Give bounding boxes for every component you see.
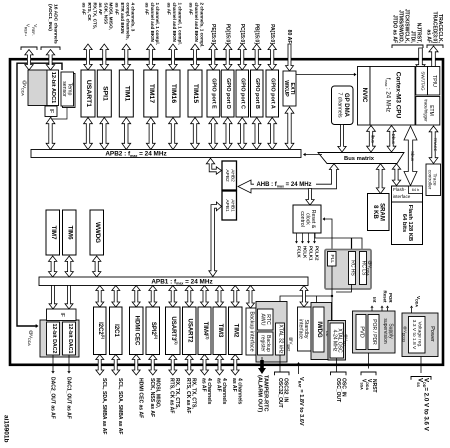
pin NRST VDDA VSSA: [360, 353, 377, 393]
svg-text:3.3 V to 1.8 V: 3.3 V to 1.8 V: [411, 320, 417, 350]
block TIM15: [188, 70, 202, 117]
wire APB1 to SPI2: [149, 286, 157, 308]
wire VDDA analog supply: [17, 63, 62, 328]
wire AHB to RCC: [306, 189, 314, 206]
svg-text:channel and BKIN: channel and BKIN: [150, 3, 155, 43]
pin VDDA top: [410, 296, 421, 313]
svg-text:(ALARM OUT): (ALARM OUT): [257, 375, 263, 412]
pin label at x=173: [167, 3, 183, 71]
wire ADC IF to temp sensor: [51, 108, 67, 120]
pin PC[15:0]: [238, 24, 246, 70]
svg-text:USART2: USART2: [187, 318, 193, 343]
pin DAC2_OUT: [49, 355, 55, 419]
svg-text:XTAL 32 kHz: XTAL 32 kHz: [278, 325, 284, 354]
block PVD: [356, 315, 366, 350]
block Supply supervision @VDDA: [353, 311, 396, 353]
svg-text:PA[15:0]: PA[15:0]: [269, 24, 275, 44]
block SPI1: [97, 70, 111, 117]
block DAC @VDDA group: [27, 320, 79, 357]
svg-text:Flash-: Flash-: [393, 187, 406, 192]
wire Ibus CPU to bus matrix: [367, 126, 376, 153]
block Power @VDD group: [401, 313, 438, 357]
block GPIO port D: [222, 70, 235, 117]
block AHB1:APB1 bridge: [222, 191, 237, 220]
wire APB1 to DAC IF: [49, 286, 73, 310]
block RTC AWU: [258, 309, 274, 330]
svg-text:GPIO port E: GPIO port E: [211, 78, 217, 109]
block TIM17: [144, 70, 158, 117]
block HDMI CEC: [130, 307, 144, 355]
block TIM7: [46, 210, 60, 255]
pin label at x=150.8: [144, 3, 160, 71]
wire POR Reset output: [381, 291, 393, 311]
bus APB2: [31, 150, 301, 158]
svg-text:TIM6: TIM6: [66, 225, 73, 240]
svg-text:as AF: as AF: [189, 3, 194, 16]
svg-text:DAC1_OUT as AF: DAC1_OUT as AF: [65, 377, 71, 419]
pin PD[15:0]: [224, 24, 232, 70]
wire Int interrupt output: [371, 297, 377, 311]
svg-text:TIM7: TIM7: [50, 225, 57, 240]
block TIM3: [213, 307, 226, 355]
block USART1: [81, 70, 95, 117]
block IWDG @VDD group: [311, 303, 332, 360]
gpio gap shading: [220, 71, 222, 117]
svg-text:TIM3: TIM3: [217, 324, 223, 338]
svg-text:RTS, CK as AF: RTS, CK as AF: [168, 378, 174, 413]
pin VBAT: [297, 362, 304, 426]
block TIM6: [63, 210, 77, 255]
svg-text:USART1: USART1: [85, 80, 92, 107]
svg-text:SCK, NSS as AF: SCK, NSS as AF: [149, 378, 155, 417]
wire ETM to trace controller: [429, 126, 438, 164]
block Backup registers: [258, 332, 274, 355]
svg-text:control: control: [299, 211, 305, 227]
svg-text:IF: IF: [48, 109, 54, 113]
bus AHB: [238, 164, 339, 193]
block 12-bit DAC2: [47, 322, 60, 355]
svg-text:PCLK1: PCLK1: [308, 246, 313, 261]
svg-text:SRAM: SRAM: [378, 203, 384, 221]
pin label at x=126.3: [115, 3, 136, 71]
block TPIU: [428, 67, 440, 96]
block TIM16: [166, 70, 180, 117]
svg-text:as AF: as AF: [426, 30, 432, 43]
svg-text:Dbus: Dbus: [391, 134, 396, 145]
svg-text:OSC32_OUT: OSC32_OUT: [277, 378, 283, 408]
svg-text:ETR and BKIN: ETR and BKIN: [120, 3, 125, 35]
svg-text:PLL: PLL: [329, 255, 335, 264]
svg-text:compl. channels,: compl. channels,: [125, 3, 130, 40]
block backup domain @VBAT: [256, 302, 293, 363]
wire APB1 to I2C2: [96, 286, 104, 308]
block GPIO port A: [266, 70, 279, 117]
block 12-bit DAC1: [63, 322, 76, 355]
block SW/JTAG: [416, 67, 428, 96]
svg-text:register: register: [259, 335, 265, 352]
wire SRAM to bus matrix: [376, 164, 384, 194]
block Flash interface: [392, 186, 423, 202]
svg-text:GPIO port A: GPIO port A: [270, 78, 276, 109]
block TIM2: [229, 307, 243, 355]
svg-text:64 b: 64 b: [412, 188, 419, 192]
svg-text:GP DMA: GP DMA: [343, 93, 349, 118]
wire bus matrix to APB2 bus: [303, 153, 322, 157]
block Standby interface: [297, 307, 311, 351]
block USART3: [166, 307, 181, 355]
bus matrix: [318, 153, 404, 164]
wire flash interface to bus matrix: [392, 164, 400, 186]
svg-text:GPIO port C: GPIO port C: [240, 78, 246, 109]
svg-text:4-24 MHz: 4-24 MHz: [331, 330, 337, 352]
block NVIC: [358, 67, 371, 126]
svg-text:HDMI CEC: HDMI CEC: [134, 316, 140, 346]
svg-text:2 channels, 1 compl.: 2 channels, 1 compl.: [199, 3, 204, 48]
wire APB1 to I2C1: [112, 286, 120, 308]
wire bridge to APB1 bus: [209, 202, 222, 277]
wire arrows top row to APB2 bus: [46, 107, 294, 150]
svg-text:PC[15:0]: PC[15:0]: [239, 24, 245, 45]
pin VREF plus minus: [21, 24, 38, 70]
wire USART3 to pins: [169, 355, 177, 376]
wire I2C1 to pins: [112, 355, 120, 376]
block PLL: [328, 252, 337, 267]
pin VDD VSS: [411, 357, 431, 432]
block XTAL 32 kHz: [276, 323, 285, 355]
block GP DMA: [332, 86, 354, 125]
svg-text:interface: interface: [393, 194, 411, 199]
wire WWDG to APB1: [93, 256, 101, 277]
svg-text:Reset: Reset: [383, 291, 388, 303]
svg-text:MOSI, MISO,: MOSI, MISO,: [109, 3, 114, 30]
svg-text:as AF: as AF: [82, 3, 87, 16]
pin TRACE group: [426, 12, 444, 67]
svg-text:AHB2: AHB2: [229, 169, 235, 182]
pin OSC32 pins: [275, 355, 290, 408]
block I2C1: [110, 307, 123, 355]
block ADC IF: [45, 106, 57, 117]
svg-text:JTDO as AF: JTDO as AF: [392, 15, 398, 43]
svg-text:interface: interface: [297, 319, 303, 339]
block ETM trigger: [416, 97, 440, 126]
wire PLL and LSI distribution: [275, 266, 352, 323]
wire RCC to RC oscillators: [315, 234, 362, 251]
wire APB2 bus to bridge: [206, 158, 221, 174]
svg-text:OSC_OUT: OSC_OUT: [335, 378, 341, 402]
svg-text:TIM16: TIM16: [170, 84, 177, 103]
svg-text:channel and BKIN: channel and BKIN: [172, 3, 177, 43]
svg-text:POR / PDR: POR / PDR: [371, 319, 377, 345]
wire EXTI to NVIC: [296, 73, 357, 77]
wire TIM6 to APB1: [65, 256, 73, 277]
svg-text:FCLK: FCLK: [296, 246, 301, 259]
svg-text:PCLK2: PCLK2: [314, 246, 319, 261]
svg-text:TIM17: TIM17: [148, 84, 155, 103]
block USART2: [183, 307, 197, 355]
wire TIM3 to pins: [216, 355, 224, 376]
svg-text:channel and BKIN: channel and BKIN: [194, 3, 199, 43]
svg-text:as AF: as AF: [215, 378, 221, 392]
svg-text:as AF: as AF: [200, 378, 206, 392]
block RC LS oscillator: [360, 252, 367, 285]
svg-text:Flash 128 KB: Flash 128 KB: [407, 205, 413, 241]
svg-text:12-bit DAC1: 12-bit DAC1: [67, 323, 73, 353]
block Trace controller: [426, 164, 441, 196]
wire APB1 to USART3: [169, 286, 177, 308]
pin label at x=104.3: [98, 3, 114, 71]
svg-text:WWDG: WWDG: [94, 222, 101, 243]
wire APB1 to TIM2: [231, 286, 239, 308]
wire TIM2 to pins: [231, 355, 239, 376]
pin label at x=195: [189, 3, 205, 71]
svg-text:Power: Power: [429, 326, 435, 342]
svg-text:1 channel, 1 compl.: 1 channel, 1 compl.: [177, 3, 182, 45]
block Flash 128KB: [392, 202, 423, 245]
wire APB1 to USART2: [185, 286, 193, 308]
svg-text:sensor: sensor: [61, 81, 67, 97]
svg-text:supervision: supervision: [382, 318, 388, 344]
svg-text:as AF: as AF: [144, 3, 149, 16]
wire APB1 to standby interface: [300, 286, 308, 308]
svg-text:Bus matrix: Bus matrix: [344, 156, 375, 162]
svg-text:Int: Int: [372, 297, 377, 303]
svg-text:PB[15:0]: PB[15:0]: [254, 24, 260, 45]
block GPIO port B: [251, 70, 264, 117]
svg-text:AHB : fmax = 24 MHz: AHB : fmax = 24 MHz: [256, 182, 311, 188]
block DAC IF: [47, 309, 77, 321]
svg-text:as AF: as AF: [167, 3, 172, 16]
svg-text:PE[15:0]: PE[15:0]: [210, 24, 216, 44]
block voltage regulator: [409, 317, 426, 354]
svg-text:AWU: AWU: [259, 314, 265, 326]
svg-text:SCL, SDA, SMBA as AF: SCL, SDA, SMBA as AF: [117, 378, 123, 435]
wire PLL to RCC: [323, 217, 333, 251]
svg-text:AHB1: AHB1: [229, 199, 235, 212]
wire USART2 to pins: [185, 355, 193, 376]
pin PE[15:0]: [209, 24, 217, 70]
block EXTI WKUP: [283, 71, 296, 106]
block XTAL OSC 4-24 MHz @VDD: [328, 321, 349, 361]
pin label at x=88: [82, 3, 98, 71]
svg-text:controller: controller: [426, 170, 432, 190]
svg-text:SPI1: SPI1: [101, 86, 108, 101]
pin OSC_IN OSC_OUT: [331, 359, 347, 403]
block SPI2: [146, 307, 160, 355]
svg-text:12-bit DAC2: 12-bit DAC2: [51, 323, 57, 353]
svg-text:SW/JTAG: SW/JTAG: [420, 71, 425, 91]
pin TAMPER-RTC: [257, 357, 269, 412]
svg-text:TIM15: TIM15: [192, 84, 199, 103]
svg-text:Backup interface: Backup interface: [249, 311, 255, 351]
svg-text:GPIO port B: GPIO port B: [254, 78, 260, 109]
block TIM1: [119, 70, 133, 117]
svg-text:HCLK: HCLK: [302, 246, 307, 259]
svg-text:TIM2: TIM2: [233, 324, 239, 338]
svg-text:trace/trigger: trace/trigger: [423, 99, 428, 122]
svg-text:7 channels: 7 channels: [337, 92, 343, 117]
svg-text:TRACE: TRACE: [433, 138, 438, 152]
block Backup interface: [246, 308, 256, 355]
block Cortex-M3 CPU U1: [370, 67, 415, 126]
wire HDMI CEC to pins: [132, 355, 140, 376]
svg-text:1 channel, 1 compl.: 1 channel, 1 compl.: [155, 3, 160, 45]
svg-text:TPIU: TPIU: [431, 75, 437, 87]
block 12-bit ADC1: [47, 70, 59, 106]
block IWDG: [313, 307, 324, 352]
svg-text:12-bit ADC1: 12-bit ADC1: [50, 72, 56, 104]
svg-text:IWDG: IWDG: [316, 321, 322, 338]
svg-text:RTS, CK as AF: RTS, CK as AF: [185, 378, 191, 413]
wire Sbus CPU to flash interface: [404, 126, 417, 186]
svg-text:8 KB: 8 KB: [372, 205, 378, 219]
wire GP DMA to bus matrix: [338, 125, 346, 153]
svg-text:USART3(1): USART3(1): [170, 316, 178, 344]
svg-text:RC HS: RC HS: [349, 260, 355, 276]
svg-text:64 bits: 64 bits: [401, 214, 407, 232]
wire TIM4 to pins: [201, 355, 209, 376]
bus APB1: [39, 277, 308, 286]
svg-text:RX,TX, CTS,: RX,TX, CTS,: [92, 3, 97, 30]
svg-text:16 ADC channels: 16 ADC channels: [53, 4, 59, 44]
pin JTAG SWD group: [392, 9, 425, 71]
block ADC @VDDA region: [21, 70, 47, 106]
svg-text:Sbus: Sbus: [410, 151, 415, 162]
block POR PDR: [368, 315, 379, 350]
svg-text:WKUP: WKUP: [283, 80, 289, 97]
svg-text:Trace: Trace: [432, 173, 438, 185]
pin DAC1_OUT: [65, 355, 71, 419]
wire Dbus CPU to bus matrix: [387, 126, 396, 153]
svg-text:TIM1: TIM1: [123, 86, 130, 102]
block clock @VDDA group: [325, 250, 372, 290]
svg-text:RTS, CK: RTS, CK: [87, 3, 92, 22]
wire SPI2 to pins: [149, 355, 157, 376]
svg-text:(ADC1_INs): (ADC1_INs): [47, 4, 53, 31]
chip boundary: [10, 59, 443, 365]
svg-text:SCK, NSS: SCK, NSS: [103, 3, 108, 25]
svg-text:GPIO port D: GPIO port D: [225, 78, 231, 109]
svg-text:I2C1: I2C1: [113, 324, 119, 337]
wire APB1 to TIM4: [201, 286, 209, 308]
svg-text:PVD: PVD: [359, 326, 365, 338]
svg-text:80 AF: 80 AF: [286, 30, 292, 44]
svg-text:RC LS: RC LS: [360, 261, 366, 276]
svg-text:as AF: as AF: [231, 378, 237, 392]
svg-text:IF: IF: [59, 312, 65, 316]
svg-text:as AF: as AF: [98, 3, 103, 16]
wire TIM7 to APB1: [49, 256, 57, 277]
svg-text:NVIC: NVIC: [361, 88, 368, 103]
svg-text:SCL, SDA, SMBA as AF: SCL, SDA, SMBA as AF: [101, 378, 107, 435]
svg-text:APB2: APB2: [224, 169, 230, 182]
svg-text:ai15901b: ai15901b: [2, 415, 9, 442]
wire RCC clock outputs: [295, 233, 319, 261]
svg-text:Voltage reg.: Voltage reg.: [416, 321, 422, 347]
block I2C2: [94, 307, 107, 355]
block Temp sensor: [61, 72, 75, 108]
block GPIO port C: [236, 70, 249, 117]
pin 80 AF into EXTI: [286, 30, 294, 71]
pin PA[15:0]: [268, 24, 276, 70]
block TIM4: [198, 307, 211, 355]
svg-text:Ibus: Ibus: [371, 135, 376, 144]
block SRAM 8KB: [368, 194, 390, 231]
svg-text:DAC2_OUT as AF: DAC2_OUT as AF: [49, 377, 55, 419]
block AHB2:APB2 bridge: [222, 161, 237, 190]
svg-text:APB1: APB1: [224, 199, 230, 212]
svg-text:4 channels, 3: 4 channels, 3: [131, 3, 136, 32]
svg-text:Cortex-M3 CPU: Cortex-M3 CPU: [395, 72, 402, 119]
block WWDG: [90, 210, 104, 255]
pin PB[15:0]: [253, 24, 261, 70]
wire I2C2 to pins: [96, 355, 104, 376]
svg-text:HDMI CEC as AF: HDMI CEC as AF: [137, 378, 143, 418]
block GPIO port E: [207, 70, 220, 117]
svg-text:as AF: as AF: [115, 3, 120, 16]
wire APB1 to TIM3: [216, 286, 224, 308]
wire APB1 to backup interface: [247, 286, 255, 309]
wire APB1 to HDMI CEC: [132, 286, 140, 308]
pin 16 ADC channels: [41, 4, 60, 70]
svg-text:PD[15:0]: PD[15:0]: [225, 24, 231, 45]
block RCC reset and clock control: [293, 205, 321, 233]
block RC HS oscillator: [349, 252, 356, 285]
